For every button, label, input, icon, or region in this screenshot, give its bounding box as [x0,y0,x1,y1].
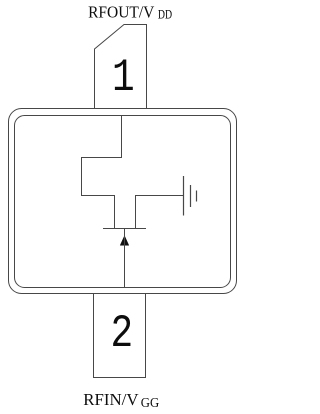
ground bar 2 [190,185,192,207]
svg-text:DD: DD [158,7,172,21]
wire gate to pin 2 [124,229,126,288]
ground bar 1 [183,176,185,216]
package body outer outline [9,109,237,294]
wire vertical down [81,157,83,196]
svg-text:2: 2 [110,308,133,360]
transistor Q1 drain lead [114,196,116,229]
wire pin1 to bend (vertical) [121,116,123,158]
svg-text:GG: GG [141,395,160,410]
svg-text:RFOUT/V: RFOUT/V [88,3,154,22]
wire to drain [81,195,115,197]
wire bend horizontal [81,157,122,159]
ground bar 3 [196,191,198,202]
pin 2 [94,294,146,378]
package body inner outline [15,116,231,288]
transistor Q1 gate arrow [120,236,129,246]
pin 1 [95,25,147,109]
transistor Q1 channel bar [103,228,146,230]
svg-text:1: 1 [112,52,135,104]
svg-text:RFIN/V: RFIN/V [83,390,138,409]
wire source to ground [135,195,184,197]
transistor Q1 source lead [135,196,137,229]
